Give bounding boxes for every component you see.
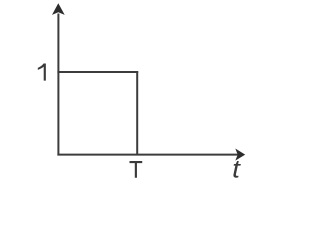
x-axis arrowhead — [235, 149, 245, 161]
label 1 (amplitude) — [38, 64, 46, 81]
y-axis — [57, 14, 59, 156]
y-axis arrowhead — [52, 3, 65, 15]
label t (axis name, italic) — [233, 161, 240, 178]
pulse right (falling) edge — [136, 71, 138, 155]
x-axis (t axis) — [57, 154, 238, 156]
pulse top edge — [57, 71, 138, 73]
label T (pulse width) — [130, 161, 143, 178]
